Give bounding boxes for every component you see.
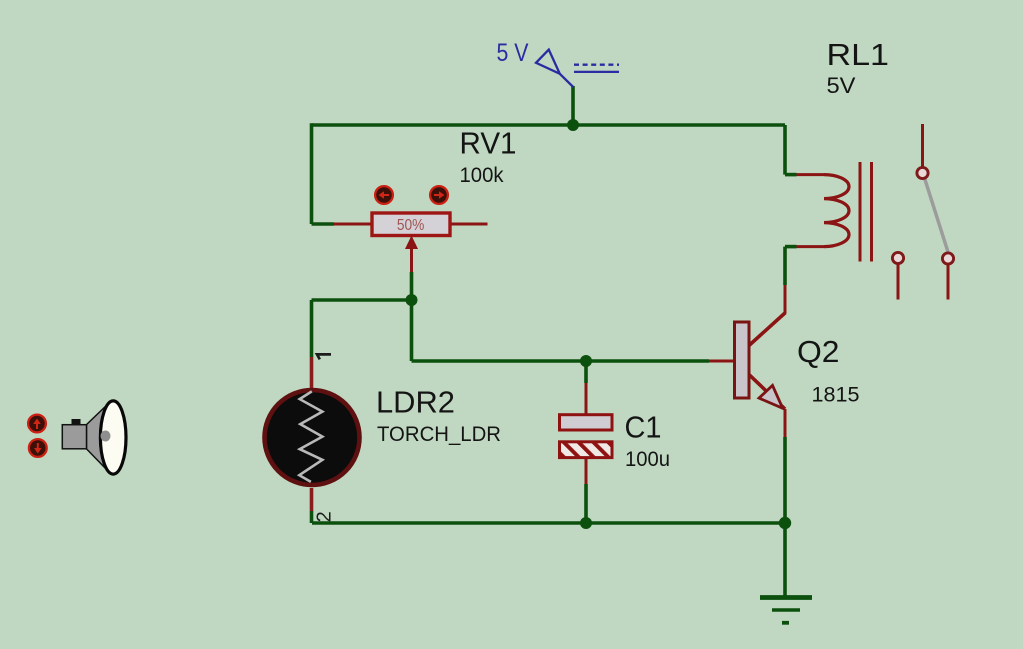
wire C1 bottom green [584, 484, 588, 523]
relay RL1 common stub [921, 124, 924, 167]
wire wiper junction down [410, 300, 414, 361]
wire emitter green [783, 437, 787, 523]
wire 5V stem [571, 86, 575, 125]
wire left vertical from top rail to RV1 [310, 123, 314, 224]
torch horn [87, 403, 109, 472]
svg-text:1815: 1815 [812, 384, 860, 407]
resistor RV1 left lead [334, 223, 372, 226]
node junction top rail 5V [567, 119, 579, 131]
transistor Q2 collector diagonal [749, 313, 786, 346]
LDR2 bottom lead [310, 488, 314, 511]
svg-text:100u: 100u [625, 448, 670, 471]
relay RL1 coil [824, 175, 849, 247]
node junction C1 top [580, 355, 592, 367]
node junction emitter ground [779, 517, 791, 529]
wire LDR top vertical [310, 300, 314, 357]
capacitor C1 top lead [585, 383, 588, 415]
relay RL1 coil top red stub [797, 173, 825, 176]
transistor Q2 emitter arrow [759, 385, 783, 408]
relay RL1 core line 1 [859, 162, 862, 262]
wire top rail [312, 123, 786, 127]
LDR2 body [265, 390, 360, 485]
torch lens [100, 401, 126, 474]
wire C1 top green [584, 361, 588, 383]
torch down button [29, 439, 47, 457]
wire RV1 left green stub [312, 222, 335, 226]
wire bottom rail [312, 521, 785, 525]
torch lens shadow [101, 431, 111, 442]
svg-text:TORCH_LDR: TORCH_LDR [377, 423, 501, 446]
LDR2 pin 1 [317, 354, 331, 359]
node junction wiper [406, 294, 418, 306]
ground [760, 598, 812, 623]
svg-text:100k: 100k [460, 164, 504, 187]
relay RL1 NO contact [942, 253, 953, 264]
resistor RV1 right lead [450, 223, 488, 226]
capacitor C1 bottom plate [560, 442, 613, 458]
relay RL1 NC contact [892, 252, 903, 263]
resistor RV1 wiper arrow [410, 247, 413, 272]
svg-text:5 V: 5 V [497, 39, 529, 67]
torch body [62, 425, 86, 449]
relay RL1 coil bottom red stub [797, 245, 825, 248]
svg-text:C1: C1 [625, 410, 662, 445]
svg-text:50%: 50% [397, 217, 425, 234]
wire relay coil top green stub [785, 173, 797, 177]
svg-text:5V: 5V [827, 73, 856, 98]
wire collector green [783, 247, 787, 285]
svg-text:2: 2 [314, 511, 336, 522]
capacitor C1 top plate [560, 415, 613, 430]
wire base line [412, 359, 710, 363]
torch up button [28, 415, 46, 433]
wire wiper green segment [410, 272, 414, 300]
node junction C1 bottom [580, 517, 592, 529]
resistor RV1 decrement button [375, 186, 393, 204]
transistor Q2 emitter diagonal [749, 375, 785, 410]
relay RL1 NO lead [947, 265, 950, 300]
LDR2 zigzag [299, 391, 322, 482]
resistor RV1 body [372, 213, 450, 236]
relay RL1 armature [924, 177, 948, 253]
svg-text:Q2: Q2 [797, 334, 840, 369]
svg-text:RV1: RV1 [460, 126, 517, 161]
transistor Q2 collector red vertical [784, 285, 787, 313]
wire LDR bottom green [310, 511, 314, 523]
transistor Q2 emitter red vertical [784, 409, 787, 437]
resistor RV1 increment button [430, 186, 448, 204]
svg-text:LDR2: LDR2 [376, 385, 455, 420]
LDR2 top lead [310, 357, 314, 392]
relay RL1 NC lead [897, 264, 900, 300]
power 5V symbol [536, 50, 619, 87]
wire relay coil bottom green stub [785, 245, 797, 249]
transistor Q2 base bar [735, 322, 750, 398]
torch switch tab [72, 419, 81, 425]
wire LDR top horizontal [312, 298, 412, 302]
relay RL1 core line 2 [870, 162, 873, 262]
svg-text:RL1: RL1 [827, 37, 890, 72]
wire relay left vertical [783, 125, 787, 175]
relay RL1 common contact [917, 167, 928, 178]
wire ground vertical [783, 523, 787, 598]
capacitor C1 bottom lead [585, 458, 588, 484]
transistor Q2 base lead [709, 360, 735, 363]
